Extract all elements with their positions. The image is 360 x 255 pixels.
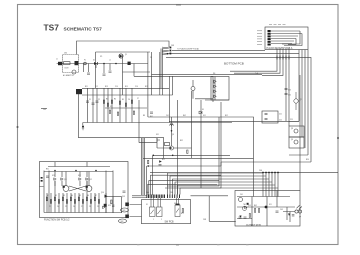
svg-text:IC1: IC1: [100, 56, 103, 58]
svg-text:R4: R4: [71, 195, 73, 197]
svg-text:C9: C9: [150, 57, 152, 59]
svg-text:TS7: TS7: [44, 23, 60, 33]
svg-text:C63: C63: [280, 209, 283, 211]
svg-text:R31: R31: [46, 169, 49, 171]
svg-text:D1: D1: [93, 60, 95, 62]
svg-text:D22: D22: [78, 175, 81, 177]
svg-text:F1: F1: [84, 60, 86, 62]
svg-text:R41: R41: [150, 116, 153, 118]
svg-text:Q11: Q11: [64, 179, 67, 181]
svg-text:C24: C24: [288, 95, 291, 97]
svg-text:R13: R13: [105, 86, 108, 88]
svg-text:R71: R71: [181, 213, 184, 215]
svg-text:R21: R21: [162, 159, 165, 161]
svg-text:C25: C25: [290, 119, 293, 121]
svg-text:R32: R32: [180, 140, 183, 142]
svg-text:C2: C2: [98, 99, 100, 101]
svg-text:Q13: Q13: [122, 196, 125, 198]
svg-text:R5: R5: [79, 195, 81, 197]
svg-text:C9: C9: [97, 206, 99, 208]
svg-text:C12: C12: [95, 86, 98, 88]
svg-text:CN5: CN5: [170, 192, 173, 194]
svg-text:R62: R62: [254, 205, 257, 207]
svg-text:R7: R7: [95, 195, 97, 197]
svg-text:SW PCB: SW PCB: [165, 221, 175, 223]
svg-text:CN3: CN3: [171, 45, 174, 47]
svg-text:C6: C6: [73, 206, 75, 208]
svg-text:CN1: CN1: [64, 53, 67, 55]
svg-text:IC2: IC2: [110, 106, 113, 108]
svg-text:R52: R52: [225, 115, 228, 117]
svg-text:C5: C5: [65, 206, 67, 208]
svg-text:R6: R6: [87, 195, 89, 197]
svg-text:P.B: P.B: [213, 73, 215, 75]
svg-text:D23: D23: [108, 205, 111, 207]
svg-text:Q12: Q12: [89, 179, 92, 181]
svg-text:C41: C41: [166, 115, 169, 117]
svg-text:C21: C21: [279, 114, 282, 116]
svg-text:R3: R3: [63, 195, 65, 197]
svg-text:S2: S2: [174, 203, 176, 205]
svg-text:SW2: SW2: [121, 221, 124, 223]
svg-text:C7: C7: [81, 206, 83, 208]
svg-text:C8: C8: [89, 206, 91, 208]
svg-text:TH1: TH1: [243, 204, 246, 206]
svg-text:C61: C61: [240, 194, 243, 196]
svg-text:Q15: Q15: [248, 205, 251, 207]
svg-text:L1: L1: [109, 60, 111, 62]
svg-text:D11: D11: [269, 204, 272, 206]
svg-text:C14: C14: [115, 86, 118, 88]
svg-text:R3: R3: [106, 99, 108, 101]
svg-text:R4: R4: [114, 99, 116, 101]
svg-text:R8: R8: [143, 115, 145, 117]
svg-text:Q1: Q1: [125, 54, 127, 56]
svg-text:C22: C22: [279, 120, 282, 122]
svg-text:D51: D51: [203, 115, 206, 117]
svg-text:SP: SP: [299, 217, 301, 219]
svg-text:Q8: Q8: [291, 128, 293, 130]
svg-text:S1: S1: [146, 204, 148, 206]
svg-text:R5: R5: [122, 99, 124, 101]
svg-text:C6: C6: [128, 99, 130, 101]
svg-text:PJACK/DCIN/HP PCB A: PJACK/DCIN/HP PCB A: [267, 47, 293, 50]
svg-text:D6: D6: [213, 83, 215, 85]
svg-text:D5: D5: [202, 109, 204, 111]
svg-text:Q7: Q7: [300, 99, 302, 101]
svg-text:R26: R26: [306, 159, 309, 161]
svg-text:R11: R11: [85, 86, 88, 88]
svg-text:C7: C7: [137, 98, 139, 100]
svg-text:C3: C3: [49, 206, 51, 208]
svg-text:CN2: CN2: [43, 109, 46, 111]
svg-text:C1: C1: [89, 99, 91, 101]
svg-text:C4: C4: [57, 206, 59, 208]
svg-text:TO PJACK/DCIN/HP PCB A1: TO PJACK/DCIN/HP PCB A1: [177, 48, 199, 51]
svg-text:Q9: Q9: [291, 139, 293, 141]
svg-text:PinB: PinB: [255, 73, 258, 75]
svg-text:Q14: Q14: [101, 192, 104, 194]
svg-text:R17: R17: [145, 86, 148, 88]
svg-text:SW1: SW1: [123, 210, 126, 212]
svg-text:D31: D31: [156, 134, 159, 136]
svg-text:SCHEMATIC TS7: SCHEMATIC TS7: [64, 26, 103, 32]
svg-text:Q3: Q3: [172, 134, 174, 136]
svg-text:OUTPUT PCB: OUTPUT PCB: [246, 225, 261, 227]
svg-text:D21: D21: [52, 175, 55, 177]
svg-text:J1: J1: [56, 59, 58, 61]
svg-text:R1: R1: [47, 195, 49, 197]
svg-text:AC ADAPTOR: AC ADAPTOR: [63, 74, 75, 77]
svg-text:CN8: CN8: [203, 219, 206, 221]
svg-text:R15: R15: [125, 86, 128, 88]
svg-text:BOTTOM PCB: BOTTOM PCB: [224, 62, 244, 66]
svg-text:DC9V: DC9V: [65, 68, 69, 70]
svg-text:C16: C16: [135, 86, 138, 88]
svg-text:R42: R42: [183, 115, 186, 117]
svg-text:C23: C23: [288, 90, 291, 92]
svg-text:FUNCTION SW PCB 1/2: FUNCTION SW PCB 1/2: [44, 220, 70, 222]
svg-text:CN4: CN4: [146, 192, 149, 194]
svg-text:CN6: CN6: [259, 170, 262, 172]
svg-text:R2: R2: [55, 195, 57, 197]
